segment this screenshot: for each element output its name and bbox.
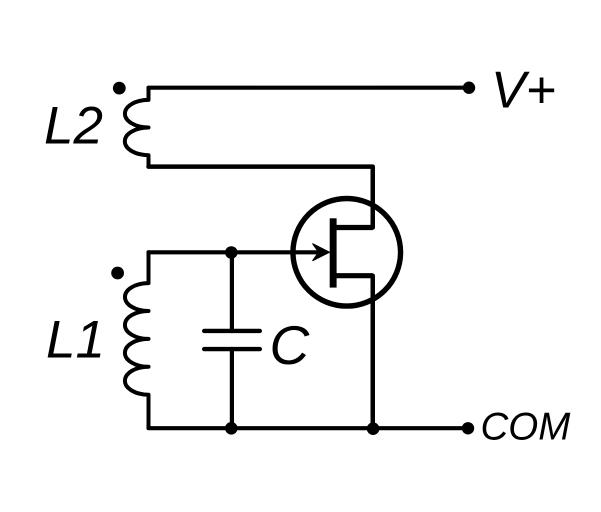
wire L2 bottom to drain node bbox=[149, 167, 373, 228]
wire capacitor top stub bbox=[230, 252, 234, 331]
svg-text:COM: COM bbox=[481, 406, 572, 449]
wire capacitor bottom stub bbox=[230, 349, 234, 428]
gate arrow bbox=[313, 244, 330, 261]
svg-text:C: C bbox=[270, 314, 311, 376]
capacitor C plates bbox=[204, 331, 260, 349]
polarity dot L2 bbox=[113, 82, 126, 95]
svg-text:L1: L1 bbox=[46, 311, 105, 370]
junction gate/C node bbox=[225, 246, 238, 259]
source lead bbox=[334, 273, 373, 278]
transistor Q1 JFET bbox=[293, 199, 401, 307]
junction source/bottom rail bbox=[367, 422, 380, 435]
svg-text:L2: L2 bbox=[44, 96, 103, 155]
wire bottom rail to COM bbox=[149, 426, 469, 430]
inductor L2 bbox=[125, 88, 149, 167]
inductor L1 bbox=[125, 252, 149, 428]
svg-text:V+: V+ bbox=[491, 62, 556, 120]
junction capacitor/bottom rail bbox=[225, 422, 238, 435]
channel bar bbox=[330, 218, 337, 287]
terminal V+ bbox=[463, 82, 475, 94]
drain lead bbox=[334, 225, 373, 230]
transistor envelope circle bbox=[293, 199, 401, 307]
wire top rail L2 to V+ bbox=[149, 86, 470, 90]
wire L1 top / gate node bbox=[149, 250, 323, 254]
wire source to bottom rail bbox=[371, 276, 376, 429]
terminal COM bbox=[462, 422, 474, 434]
polarity dot L1 bbox=[111, 267, 124, 280]
